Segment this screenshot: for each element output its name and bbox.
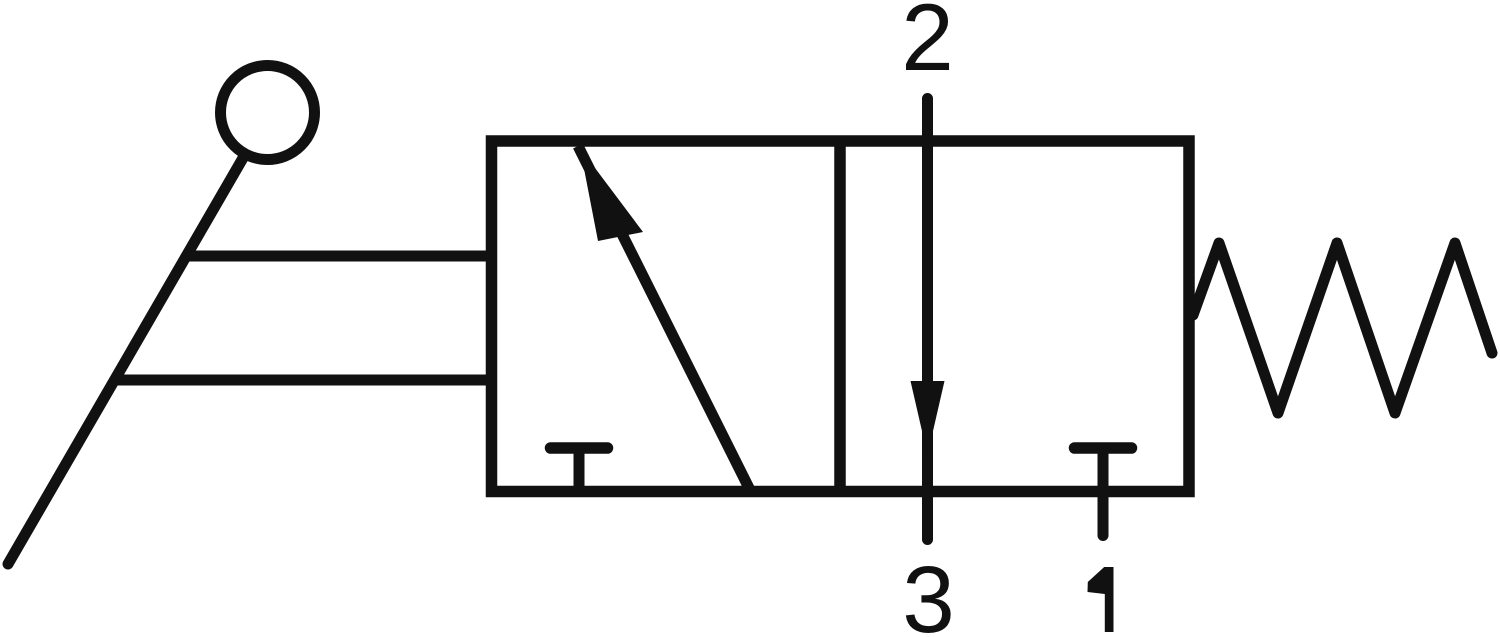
- flow path diagonal shaft: [578, 146, 750, 490]
- svg-text:3: 3: [902, 547, 955, 637]
- wire lower actuator link: [116, 375, 494, 386]
- position divider: [834, 141, 846, 492]
- flow arrowhead down: [911, 381, 945, 455]
- flow arrowhead diagonal: [580, 148, 643, 241]
- blocked port T left bar: [551, 442, 608, 454]
- valve body outline: [492, 141, 1190, 492]
- blocked port T right bar: [1075, 442, 1132, 454]
- lever roller knob: [221, 66, 315, 160]
- port 2 to port 3 flow line: [922, 99, 933, 540]
- port 1 stem: [1098, 448, 1109, 536]
- svg-text:2: 2: [901, 0, 954, 91]
- port label 1: [1088, 567, 1114, 632]
- wire upper actuator link: [186, 251, 494, 262]
- blocked port T left stem: [574, 448, 585, 490]
- lever arm: [8, 158, 243, 564]
- return spring: [1193, 243, 1492, 413]
